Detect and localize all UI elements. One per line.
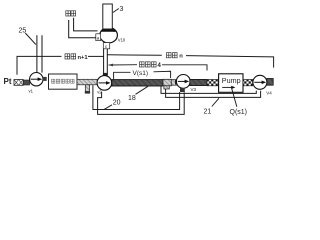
svg-text:V10: V10: [118, 38, 126, 43]
svg-text:a: a: [97, 36, 100, 41]
svg-text:20: 20: [113, 100, 121, 107]
svg-text:V3: V3: [191, 87, 197, 92]
svg-text:n: n: [179, 54, 183, 60]
svg-text:3: 3: [120, 6, 124, 13]
svg-text:n+1: n+1: [78, 55, 89, 61]
svg-text:18: 18: [128, 95, 136, 102]
svg-text:Q(s1): Q(s1): [230, 109, 248, 116]
svg-text:V(s1): V(s1): [133, 70, 149, 77]
svg-text:Pump: Pump: [222, 76, 241, 85]
svg-text:V4: V4: [266, 91, 272, 96]
svg-text:v2: v2: [97, 90, 102, 95]
svg-text:Pt: Pt: [4, 77, 12, 86]
svg-text:21: 21: [204, 109, 212, 116]
svg-text:b: b: [113, 28, 116, 33]
svg-text:v1: v1: [29, 88, 34, 93]
